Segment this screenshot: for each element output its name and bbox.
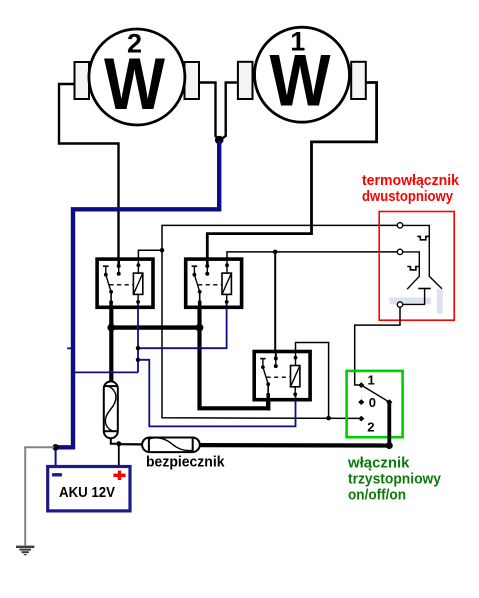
node navy dot2	[136, 358, 140, 362]
fuse F2 horizontal	[142, 438, 200, 453]
node bus end dot	[386, 442, 393, 449]
wire K3 coil feed	[296, 343, 329, 419]
node T3 junction dot on stage2 line	[273, 250, 278, 255]
wire K2-K3 output link	[197, 401, 268, 408]
wire K3 input feed	[274, 252, 276, 350]
wire grey to ground	[25, 447, 54, 545]
svg-text:2: 2	[367, 420, 374, 435]
wire navy coil net K1-K2	[138, 303, 227, 348]
node bus-K2 dot	[196, 324, 204, 332]
thermal switch box	[379, 212, 454, 321]
wire K1 coil feed	[138, 250, 162, 258]
wire plus node to fuse F2	[119, 443, 142, 445]
navy stub on trunk	[67, 347, 71, 349]
switch S1 box	[347, 371, 403, 437]
node bus-K1 dot	[107, 324, 115, 332]
wire bus to fuse F1	[109, 328, 113, 382]
relay K1	[97, 258, 153, 309]
wire plus node to battery	[118, 444, 120, 466]
svg-text:trzystopniowy: trzystopniowy	[348, 471, 442, 488]
svg-text:dwustopniowy: dwustopniowy	[362, 188, 454, 205]
wire navy coil net to K3	[138, 360, 296, 427]
relay K3	[254, 350, 310, 401]
wire motor2 right to node A	[199, 83, 219, 140]
node T2 junction dot on stage1 line	[326, 416, 331, 421]
svg-text:termowłącznik: termowłącznik	[362, 172, 460, 189]
wire navy coil net to trunk	[73, 371, 138, 373]
wire thermal common to switch S1	[355, 307, 400, 385]
wire K2 output down	[197, 309, 201, 408]
svg-text:0: 0	[369, 395, 376, 410]
battery AKU 12V	[48, 467, 130, 511]
motor M1	[238, 27, 366, 123]
watermark bar horizontal	[389, 298, 430, 305]
wire motor1 right to relay K2 top	[207, 83, 376, 259]
switch S1 arm	[361, 385, 389, 402]
svg-text:W: W	[104, 44, 165, 125]
svg-text:bezpiecznik: bezpiecznik	[146, 455, 225, 471]
relay K2	[186, 258, 242, 309]
wire K3 output down	[266, 401, 270, 410]
node plus junction dot	[116, 441, 121, 446]
motor M2	[75, 29, 200, 126]
node navy dot1	[136, 346, 140, 350]
svg-text:W: W	[270, 41, 331, 122]
fuse F1 vertical	[104, 381, 118, 438]
wire S1 to bottom bus	[387, 402, 391, 445]
svg-text:1: 1	[368, 373, 375, 388]
ground symbol	[16, 547, 34, 556]
wire navy K1 coil drop	[137, 302, 139, 372]
wire navy battery-minus drop	[55, 446, 57, 466]
wire motor2 left to relay K1 top	[59, 84, 119, 258]
wire F1 to plus node	[111, 438, 119, 444]
svg-text:włącznik: włącznik	[347, 455, 410, 472]
node T1 junction dot	[160, 248, 165, 253]
thermal common contact	[403, 289, 431, 305]
wire thermal-stage1 line	[162, 225, 397, 418]
wire motor1 left to node A	[221, 83, 238, 140]
thermal contact stage1	[403, 225, 442, 288]
thermal contact stage2	[403, 252, 420, 289]
wire K1 output to bus	[109, 309, 113, 328]
node A junction dot	[215, 136, 224, 145]
wire thermal-stage2 line	[227, 252, 397, 258]
watermark bar vertical	[437, 289, 443, 314]
wire relay bus	[111, 325, 199, 329]
thermal terminal circles	[397, 223, 402, 228]
wire bottom bus	[200, 443, 389, 448]
wire navy battery-minus trunk	[56, 141, 220, 447]
switch S1 contacts	[358, 382, 392, 421]
svg-text:AKU 12V: AKU 12V	[59, 484, 115, 501]
node battery-minus junction dot	[52, 444, 59, 451]
svg-text:on/off/on: on/off/on	[348, 487, 406, 504]
